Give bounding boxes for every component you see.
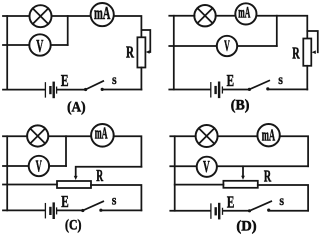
voltmeter V A xyxy=(29,34,50,56)
switch S (circuit B) xyxy=(248,81,270,91)
ammeter mA A xyxy=(91,3,114,26)
wire D bottom-left segment xyxy=(170,210,210,212)
svg-text:E: E xyxy=(61,72,69,91)
wire C voltmeter to junction xyxy=(49,165,66,167)
voltmeter V D xyxy=(197,157,217,177)
svg-text:S: S xyxy=(112,196,117,207)
wire C left vertical xyxy=(6,136,8,210)
wire A lamp to ammeter xyxy=(52,15,91,17)
wire A bottom-left segment xyxy=(3,89,45,91)
svg-text:(D): (D) xyxy=(236,218,256,234)
wire A ammeter to top-right corner, down to R xyxy=(114,16,141,37)
battery E (circuit D) xyxy=(211,204,223,218)
wire D voltmeter branch left xyxy=(170,165,196,167)
svg-text:S: S xyxy=(279,196,284,207)
wire D rheostat left terminal xyxy=(175,184,224,186)
node A: junction of voltmeter branch on top wire xyxy=(67,16,69,45)
wire C battery to switch xyxy=(58,209,83,211)
wire B bottom-left segment xyxy=(169,89,210,91)
ammeter mA C xyxy=(91,124,114,147)
wiper wire of R3 with arrow (circuit C) xyxy=(76,167,142,177)
svg-text:E: E xyxy=(227,193,234,212)
lamp B (circle with X) xyxy=(194,5,215,26)
battery E (circuit B) xyxy=(211,83,223,97)
lamp C (circle with X) xyxy=(27,125,48,146)
svg-text:S: S xyxy=(112,75,117,86)
wire C ammeter to right corner, down to wiper level xyxy=(114,136,142,167)
wire A battery to switch xyxy=(58,89,86,91)
svg-text:(A): (A) xyxy=(67,98,86,115)
svg-text:E: E xyxy=(61,193,68,212)
voltmeter V C xyxy=(29,156,49,176)
svg-text:R: R xyxy=(292,44,300,63)
svg-text:(C): (C) xyxy=(65,216,81,234)
battery E (circuit C) xyxy=(45,204,56,218)
resistor R2 (rheostat, circuit B) xyxy=(303,39,311,66)
resistor R4 (rheostat, circuit D) xyxy=(223,181,257,188)
lamp D (circle with X) xyxy=(196,125,218,147)
svg-text:R: R xyxy=(96,166,104,185)
svg-text:V: V xyxy=(224,37,230,55)
wire D rheostat right terminal, down to bottom-right corner xyxy=(258,185,308,211)
node C: junction of voltmeter branch on top wire xyxy=(65,136,67,166)
svg-text:mA: mA xyxy=(262,125,276,144)
wiper wire of R1 with arrow xyxy=(141,30,150,52)
svg-text:V: V xyxy=(36,156,42,175)
ammeter mA B xyxy=(235,3,256,24)
wire B battery to switch xyxy=(223,89,249,91)
wire C rheostat left terminal xyxy=(3,184,57,186)
wire D left vertical xyxy=(174,136,176,211)
wire B ammeter to top-right corner, down to R xyxy=(257,16,307,39)
wire A switch to bottom-right corner xyxy=(102,89,141,91)
wire D lamp to ammeter xyxy=(218,135,258,137)
wire A resistor bottom to bottom-right corner xyxy=(140,68,142,90)
wire B switch to bottom-right corner xyxy=(268,88,308,90)
svg-text:(B): (B) xyxy=(231,97,250,114)
wire D voltmeter to right corner (node after ammeter) xyxy=(217,165,308,167)
wire C top-left segment xyxy=(3,135,27,137)
svg-text:V: V xyxy=(203,157,210,176)
resistor R3 (rheostat, circuit C) xyxy=(57,181,91,188)
wire D battery to switch xyxy=(223,210,249,212)
svg-text:R: R xyxy=(126,43,134,62)
svg-text:mA: mA xyxy=(94,5,111,24)
wire B resistor bottom to bottom-right corner xyxy=(306,66,308,90)
wire C rheostat right terminal, down to bottom-right corner xyxy=(91,185,141,210)
wiper wire of R2 with arrow xyxy=(307,31,318,52)
wire C voltmeter branch left xyxy=(3,165,28,167)
svg-text:S: S xyxy=(278,75,283,86)
switch S (circuit A) xyxy=(84,81,104,91)
svg-text:R: R xyxy=(264,168,272,186)
lamp A (circle with X) xyxy=(30,5,52,27)
ammeter mA D xyxy=(257,124,279,146)
wire B voltmeter branch left xyxy=(169,45,216,47)
wire B top-left segment xyxy=(169,15,194,17)
switch S (circuit D) xyxy=(248,201,271,212)
wire A top-left segment xyxy=(3,15,30,17)
wire B lamp to ammeter xyxy=(216,15,236,17)
voltmeter V B xyxy=(217,36,237,56)
svg-text:mA: mA xyxy=(95,124,108,143)
wire A voltmeter to junction xyxy=(51,44,68,46)
wire C bottom-left segment xyxy=(3,209,45,211)
wire D top-left segment xyxy=(170,135,195,137)
wire C lamp to ammeter xyxy=(48,135,91,137)
node B: junction of voltmeter branch after ammeter xyxy=(276,16,278,46)
svg-text:V: V xyxy=(36,37,43,57)
wire A voltmeter branch left xyxy=(3,44,29,46)
resistor R1 (rheostat, circuit A) xyxy=(137,37,145,67)
svg-text:E: E xyxy=(227,72,234,91)
wire C switch to bottom-right corner xyxy=(101,209,141,211)
wire B voltmeter to junction xyxy=(238,45,277,47)
wire B left vertical xyxy=(173,16,175,90)
svg-text:mA: mA xyxy=(238,3,250,21)
wire A left vertical xyxy=(6,16,8,90)
wiper wire of R4 with arrow (circuit D) xyxy=(242,166,244,176)
switch S (circuit C) xyxy=(81,201,103,212)
wire D switch to bottom-right corner xyxy=(269,210,308,212)
wire D ammeter to top-right corner, down to voltmeter branch xyxy=(280,136,308,166)
battery E (circuit A) xyxy=(45,83,56,97)
